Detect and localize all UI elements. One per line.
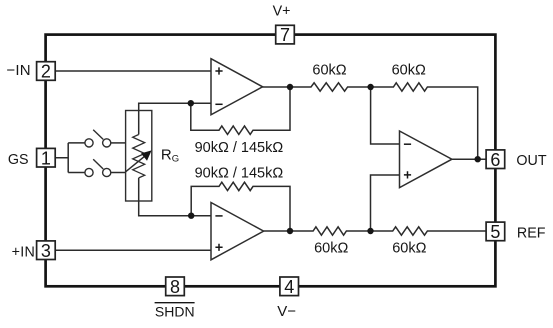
svg-text:90kΩ / 145kΩ: 90kΩ / 145kΩ [195, 166, 284, 182]
node A3 output junction [475, 156, 481, 162]
svg-text:1: 1 [41, 148, 51, 168]
svg-text:SHDN: SHDN [155, 304, 195, 320]
wire RG top lead to node A (A1 inverting input) [139, 103, 211, 134]
svg-text:4: 4 [284, 277, 294, 297]
pin 8 [166, 277, 185, 297]
IC boundary [46, 35, 496, 287]
svg-text:−IN: −IN [6, 62, 30, 79]
svg-text:+IN: +IN [12, 244, 36, 260]
potentiometer RG (gain resistor network) [126, 111, 152, 202]
wire pin3 to A2 noninverting input [54, 249, 211, 251]
svg-text:90kΩ / 145kΩ: 90kΩ / 145kΩ [195, 140, 284, 156]
wire A2 feedback loop with resistor 90k/145k lower [191, 182, 290, 231]
wire junction to A3 noninverting input [371, 175, 400, 231]
svg-text:V−: V− [277, 303, 296, 320]
wire A2 output row with resistors 60k 60k to pin 5 [264, 227, 488, 235]
pin 7 [276, 25, 295, 45]
svg-text:8: 8 [170, 277, 180, 297]
wire RG bottom lead to node B (A2 inverting input) [139, 178, 211, 216]
svg-text:3: 3 [41, 241, 51, 261]
wire pin2 to A1 noninverting input [54, 70, 211, 72]
op-amp A2 [211, 203, 264, 260]
pin 2 [37, 62, 56, 82]
svg-text:V+: V+ [273, 3, 291, 19]
node A2 output junction [287, 228, 293, 234]
pin 3 [37, 241, 56, 261]
pin 6 [486, 150, 505, 170]
node A3 noninverting junction (between 60k resistors) [367, 228, 373, 234]
pin 4 [280, 277, 299, 297]
wire junction to A3 inverting input [371, 87, 400, 144]
wire upper switch to RG box [111, 142, 126, 144]
wire A3 output to pin 6 [452, 158, 489, 160]
svg-text:60kΩ: 60kΩ [314, 240, 348, 256]
pin 5 [486, 222, 505, 242]
svg-text:REF: REF [517, 226, 546, 242]
node A3 inverting junction (between 60k resistors) [367, 84, 373, 90]
svg-text:60kΩ: 60kΩ [312, 63, 346, 79]
switch S2 (gain select) [85, 159, 111, 176]
switch S1 (gain select) [85, 130, 111, 147]
svg-text:GS: GS [8, 152, 29, 168]
pin 1 [37, 148, 56, 168]
op-amp A3 [400, 131, 452, 188]
svg-text:2: 2 [41, 62, 51, 82]
node A (A1 inverting input junction) [188, 100, 194, 106]
op-amp A1 [211, 59, 263, 115]
svg-text:60kΩ: 60kΩ [392, 63, 426, 79]
svg-text:6: 6 [490, 150, 500, 170]
wire pin1 to gain switches [54, 143, 85, 173]
svg-text:OUT: OUT [516, 153, 546, 169]
wire A1 output row with resistors 60k 60k to A3 output node [262, 83, 478, 159]
svg-text:7: 7 [280, 25, 290, 45]
node A1 output junction [287, 84, 293, 90]
svg-text:5: 5 [490, 222, 500, 242]
wire lower switch to RG wiper [111, 172, 126, 174]
svg-text:60kΩ: 60kΩ [392, 240, 426, 256]
wire A1 feedback loop with resistor 90k/145k upper [191, 87, 290, 134]
node B (A2 inverting input junction) [188, 213, 194, 219]
net label SHDN with overline [155, 303, 195, 320]
